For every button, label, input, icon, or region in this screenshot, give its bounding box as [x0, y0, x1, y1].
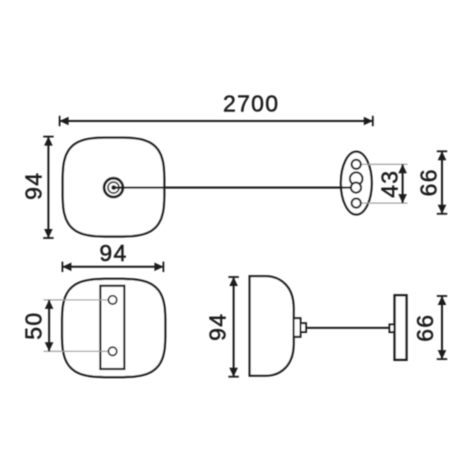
- oval keyhole large circle: [350, 172, 363, 185]
- side view: wall plate: [395, 295, 407, 360]
- dimension 66 (wall plate height, bottom right): [412, 296, 447, 359]
- dimension 94 (front view width): [62, 240, 163, 272]
- housing hub inner ring: [108, 182, 119, 193]
- side view: hook nub on wall plate: [390, 325, 395, 333]
- oval keyhole small circle: [351, 183, 361, 193]
- svg-text:66: 66: [412, 314, 438, 342]
- svg-text:50: 50: [21, 312, 47, 340]
- housing hub center dot: [111, 185, 116, 190]
- svg-text:66: 66: [416, 168, 442, 196]
- oval top screw hole: [352, 160, 361, 169]
- svg-text:94: 94: [205, 313, 231, 341]
- extension line top screw hole: [44, 299, 113, 301]
- front view: mounting bracket rectangle: [100, 286, 124, 369]
- svg-text:94: 94: [20, 172, 46, 200]
- dimension 94 (side view height): [205, 277, 239, 377]
- dimension 2700 (overall line length): [60, 90, 373, 126]
- svg-text:94: 94: [99, 240, 127, 266]
- wall hook plate (front view oval): [341, 152, 372, 215]
- oval bottom screw hole: [352, 199, 361, 208]
- bracket top screw hole: [108, 296, 116, 304]
- dimension 66 (oval plate height, top right): [416, 151, 448, 214]
- svg-text:2700: 2700: [223, 90, 279, 116]
- side view: clothesline wire: [306, 327, 390, 329]
- dimension 43 (hole spacing): [376, 164, 407, 203]
- dimension 94 (top view height): [20, 137, 53, 238]
- side view: line outlet nub: [294, 318, 301, 337]
- top view: recoil housing squircle: [63, 138, 165, 237]
- dimension 50 (screw hole spacing): [21, 300, 54, 351]
- extension line from bottom hole: [362, 202, 408, 204]
- housing hub outer ring: [104, 178, 123, 197]
- svg-text:43: 43: [376, 170, 402, 198]
- front view: housing squircle: [62, 279, 165, 377]
- clothesline wire from housing hub to wall plate oval: [114, 187, 352, 189]
- extension line bottom screw hole: [44, 350, 113, 352]
- bracket bottom screw hole: [108, 347, 116, 355]
- side view: smaller nub: [301, 323, 307, 332]
- extension line from top hole: [362, 163, 408, 165]
- side view: housing body D-shape: [250, 276, 294, 376]
